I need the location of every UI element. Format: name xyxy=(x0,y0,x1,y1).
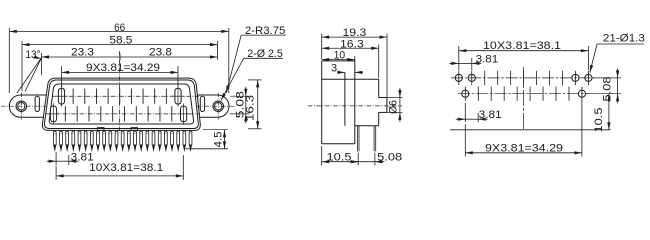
dim 10 side xyxy=(354,56,356,61)
ear hole left xyxy=(16,101,27,112)
mid section bottom xyxy=(355,125,379,127)
svg-text:5.08: 5.08 xyxy=(602,77,614,102)
svg-text:10.5: 10.5 xyxy=(327,151,352,163)
dim 19.3 xyxy=(321,34,323,60)
svg-text:10: 10 xyxy=(334,50,346,62)
side pin row B xyxy=(373,126,375,152)
dim 66 xyxy=(9,30,229,32)
svg-text:5.08: 5.08 xyxy=(377,151,402,163)
footprint view xyxy=(449,32,645,156)
row2 contact ticks xyxy=(64,106,66,121)
ear centerline right xyxy=(196,105,236,107)
svg-text:23.3: 23.3 xyxy=(71,46,94,58)
flange slot left xyxy=(35,96,39,111)
svg-text:10.5: 10.5 xyxy=(593,108,605,133)
key bump left xyxy=(98,128,105,131)
contact slot row1 first xyxy=(58,88,64,104)
dim 3.81 bottom left xyxy=(55,152,57,165)
dim 3 side xyxy=(338,71,345,73)
row1 holes xyxy=(455,74,462,81)
insert face xyxy=(49,84,193,124)
svg-text:9X3.81=34.29: 9X3.81=34.29 xyxy=(485,142,563,154)
dim 9X3.81=34.29 xyxy=(61,66,63,87)
dim 10.5 side xyxy=(321,146,323,166)
dim 5.08 side xyxy=(374,153,376,166)
solder pins xyxy=(53,131,56,134)
footprint center axis xyxy=(523,67,525,130)
svg-text:3.81: 3.81 xyxy=(476,53,499,65)
mounting flange xyxy=(9,95,229,117)
mid section top xyxy=(322,78,379,80)
svg-text:19.3: 19.3 xyxy=(343,27,367,39)
side pin row A xyxy=(356,126,358,152)
dim 4.5 xyxy=(186,148,229,150)
svg-text:9X3.81=34.29: 9X3.81=34.29 xyxy=(86,62,160,74)
ear hole right xyxy=(213,101,224,112)
angle 13 deg xyxy=(25,57,42,91)
ear centerline left xyxy=(1,105,46,107)
dim 5.08 fp xyxy=(592,77,621,79)
svg-text:16.3: 16.3 xyxy=(245,95,257,121)
dim 58.5 xyxy=(22,44,218,46)
footprint row2 centerline xyxy=(458,93,590,95)
vertical centerline xyxy=(119,51,121,133)
inner step line xyxy=(344,72,346,125)
side centerline xyxy=(308,105,402,107)
row 1 centerline xyxy=(52,95,199,97)
svg-text:10X3.81=38.1: 10X3.81=38.1 xyxy=(483,40,561,52)
dim 9X3.81=34.29 xyxy=(464,124,466,157)
svg-text:66: 66 xyxy=(114,22,125,34)
dim 16.3 side xyxy=(378,45,380,79)
dim 5.08 rows xyxy=(230,95,250,97)
dim 16.3 xyxy=(248,79,262,81)
flange slot right xyxy=(200,96,204,111)
contact slot row2 first xyxy=(50,106,56,122)
svg-text:3: 3 xyxy=(331,63,337,75)
dim 58.5 extension lines xyxy=(21,41,23,91)
svg-text:13°: 13° xyxy=(26,49,41,61)
shell inner xyxy=(44,80,198,129)
svg-text:23.8: 23.8 xyxy=(149,46,172,58)
svg-text:Ø6: Ø6 xyxy=(388,100,400,114)
board edge line xyxy=(450,129,611,131)
svg-text:16.3: 16.3 xyxy=(340,38,364,50)
dim 23.3 / 23.8 xyxy=(41,53,43,75)
front view of connector xyxy=(1,22,286,180)
dim 3.81 fp top xyxy=(471,58,473,70)
row1 contact ticks xyxy=(72,89,74,104)
dim 10.5 fp xyxy=(608,94,610,130)
svg-text:3.81: 3.81 xyxy=(479,109,502,121)
svg-text:4.5: 4.5 xyxy=(213,132,225,148)
row2 holes xyxy=(462,90,469,97)
side view of connector xyxy=(308,27,403,165)
row 2 centerline xyxy=(46,113,200,115)
center tick xyxy=(119,53,121,60)
contact slot row2 last xyxy=(181,106,187,122)
key bump right xyxy=(131,128,138,131)
dim diam 6 xyxy=(387,97,403,99)
snout xyxy=(379,97,387,99)
side body outline xyxy=(321,61,323,144)
footprint row1 centerline xyxy=(451,77,596,79)
svg-text:58.5: 58.5 xyxy=(109,35,132,47)
svg-text:21-Ø1.3: 21-Ø1.3 xyxy=(603,32,645,44)
shell outer xyxy=(42,78,200,130)
dim 10X3.81=38.1 footprint xyxy=(458,46,460,70)
dim 10X3.81=38.1 xyxy=(182,155,184,180)
dim 3.81 fp bottom xyxy=(464,103,466,122)
dim 66 extension lines xyxy=(8,28,10,93)
contact slot row1 last xyxy=(175,88,181,104)
svg-text:10X3.81=38.1: 10X3.81=38.1 xyxy=(89,162,163,174)
